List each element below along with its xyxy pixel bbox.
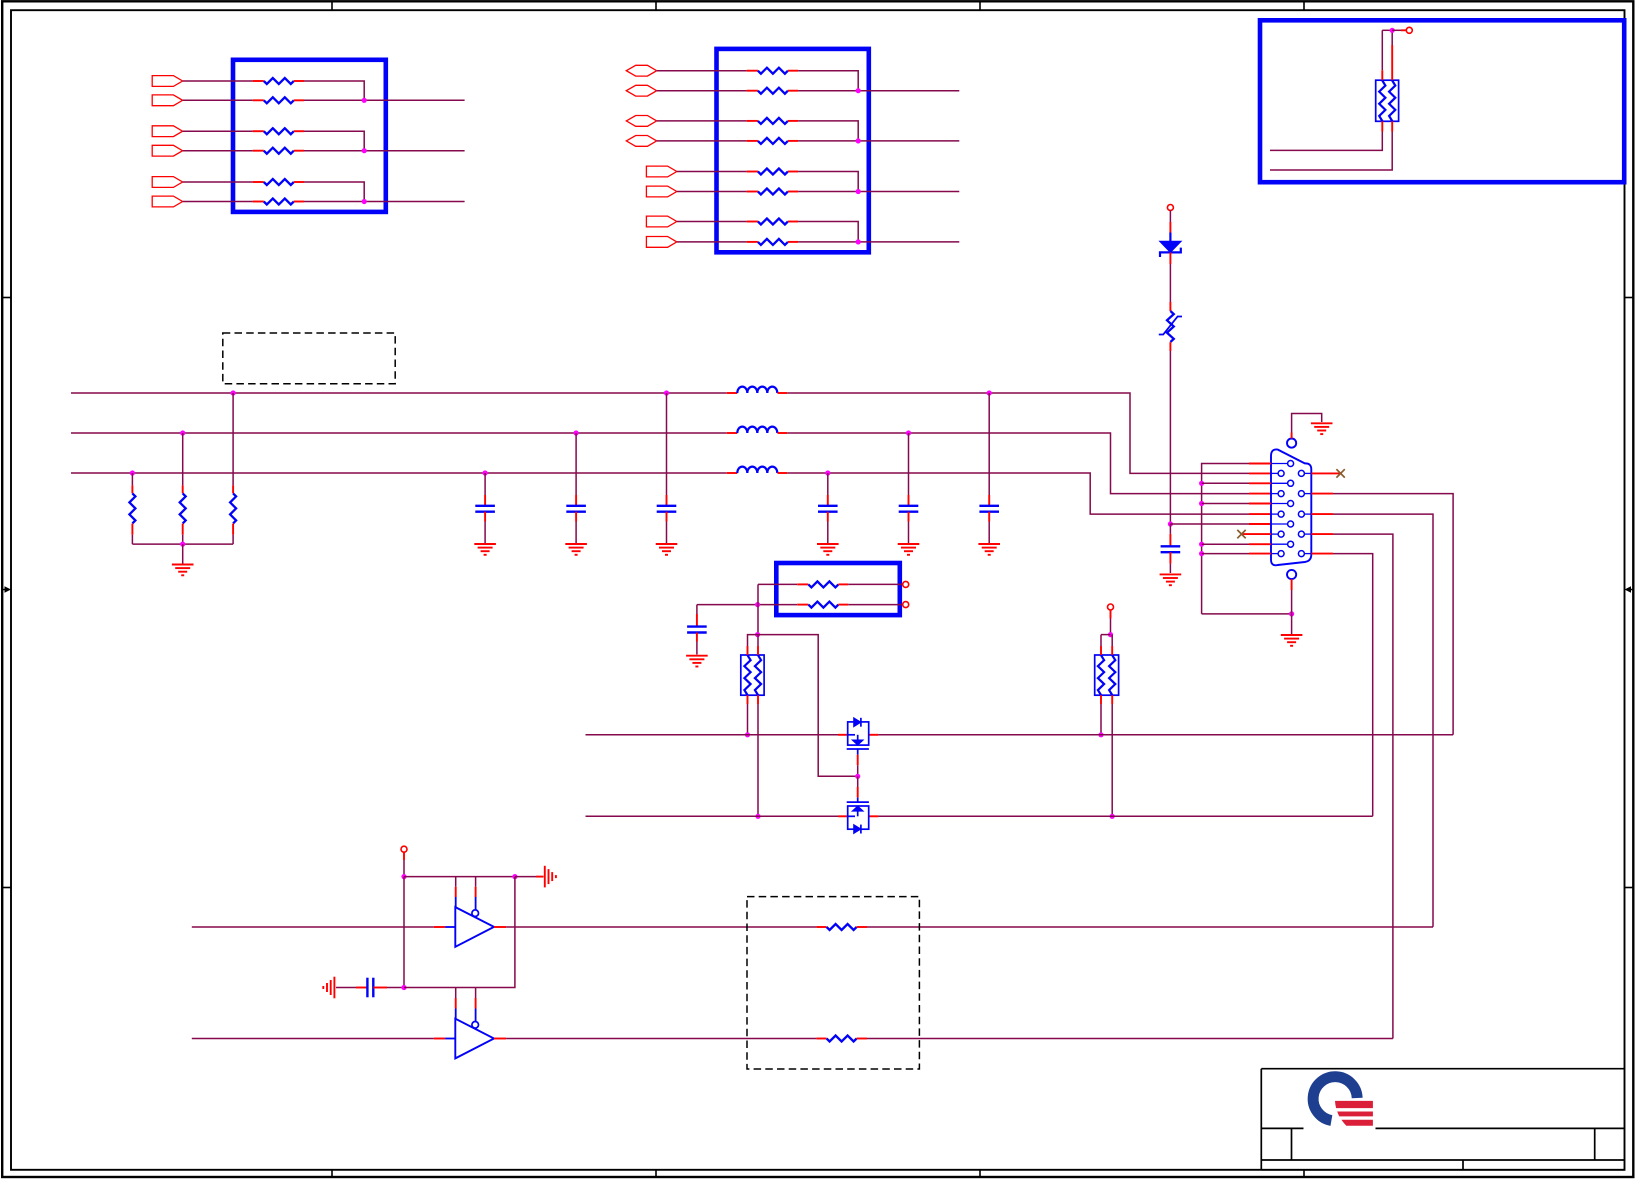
wire pin row10 to lower switch line bbox=[1311, 553, 1333, 555]
capacitor C6 bbox=[979, 505, 999, 507]
wire bus to pin row 3 bbox=[1202, 482, 1249, 484]
wire port P12 to resistor bbox=[677, 191, 747, 193]
upper switch line wire bbox=[586, 734, 839, 736]
dashed provision box (bottom) bbox=[747, 897, 919, 1069]
resistor pack RP3 element B bbox=[1389, 81, 1395, 121]
capacitor C9 bbox=[366, 978, 368, 998]
ground C9 (sideways) bbox=[333, 977, 335, 999]
driver line 2 wire right bbox=[494, 1038, 506, 1040]
resistor R14 bbox=[747, 241, 758, 243]
wire bus to C3 bbox=[666, 393, 668, 495]
wire R12 output net bbox=[798, 191, 959, 193]
resistor network box RN1 bbox=[233, 60, 386, 212]
wire D1 to RV1 bbox=[1169, 252, 1171, 264]
no-connect pin row 2 right bbox=[1311, 472, 1340, 474]
capacitor C7 bbox=[1161, 545, 1181, 547]
connector pin row1 lead bbox=[1271, 463, 1288, 465]
wire terminator common bbox=[132, 543, 233, 545]
connector pin left row8 bbox=[1278, 531, 1284, 537]
driver line 2 wire to connector bbox=[867, 1038, 1393, 1040]
wire RPL pin A to upper switch line bbox=[747, 695, 749, 704]
capacitor C9 branch bbox=[336, 987, 356, 989]
junction pair 3 bbox=[362, 199, 367, 204]
resistor pack RP3 element A bbox=[1379, 81, 1385, 121]
terminator resistor R13 bbox=[131, 485, 133, 493]
connector J1 mounting hole top bbox=[1287, 439, 1296, 448]
ground terminators bbox=[172, 564, 194, 566]
wire port P5 to resistor bbox=[183, 181, 253, 183]
connector pin row9 bbox=[1288, 541, 1294, 547]
capacitor C2 bbox=[566, 505, 586, 507]
ground C7 bbox=[1160, 573, 1182, 575]
capacitor C5 bbox=[899, 505, 919, 507]
resistor R18 bbox=[758, 604, 798, 606]
MOSFET Q1 bbox=[848, 722, 869, 745]
MOSFET Q2 bbox=[847, 801, 869, 803]
wire to terminal bbox=[1392, 29, 1401, 31]
wire pin row8 to driver line 2 bbox=[1311, 533, 1333, 535]
resistor R8 bbox=[747, 90, 758, 92]
ground C4 bbox=[817, 543, 839, 545]
wire port P10 to resistor bbox=[657, 140, 747, 142]
resistor R9 bbox=[747, 120, 758, 122]
wire RPR pin B to lower switch line bbox=[1111, 695, 1113, 704]
junction bus terminator 1 bbox=[130, 470, 135, 475]
terminal circle T5 bbox=[1108, 604, 1114, 610]
resistor R19 (dashed box) bbox=[816, 926, 826, 928]
junction RPL-B lower line bbox=[755, 814, 760, 819]
ferrite bead L2 bbox=[727, 432, 738, 434]
wire R13 output to junction bbox=[798, 222, 858, 242]
bidirectional port P8 bbox=[626, 85, 656, 96]
capacitor C4 bbox=[818, 505, 838, 507]
junction bus cap 6 bbox=[987, 390, 992, 395]
wire bus to pin row 5 bbox=[1202, 503, 1249, 505]
wire J1 pin bus vertical bbox=[1202, 464, 1249, 614]
junction lower supply node bbox=[401, 985, 406, 990]
resistor pack RPL element B bbox=[755, 655, 761, 695]
dashed provision box (top) bbox=[223, 333, 395, 384]
wire port P2 to resistor bbox=[183, 99, 253, 101]
wire buffer U1 power pin bbox=[455, 877, 457, 887]
isolation box (two series resistors) bbox=[776, 563, 900, 615]
terminal circle T2 bbox=[903, 602, 909, 608]
wire R10 output net bbox=[798, 140, 959, 142]
input port P12 bbox=[646, 186, 676, 197]
junction pair 7 bbox=[856, 189, 861, 194]
bidirectional port P10 bbox=[626, 136, 656, 147]
wire gate link horizontal bbox=[758, 635, 858, 777]
wire pin row4 to upper switch line bbox=[1311, 493, 1333, 495]
terminal circle T3 bbox=[1406, 27, 1412, 33]
junction bus cap 5 bbox=[906, 430, 911, 435]
connector pin left row2 lead bbox=[1271, 472, 1278, 474]
ground C5 bbox=[898, 543, 920, 545]
input port P13 bbox=[646, 216, 676, 227]
bus wire B right to connector row 4 bbox=[787, 433, 1249, 494]
bus wire A left bbox=[71, 392, 727, 394]
junction bus terminator 2 bbox=[180, 430, 185, 435]
wire port P6 to resistor bbox=[183, 201, 253, 203]
wire port P8 to resistor bbox=[657, 90, 747, 92]
input port P3 bbox=[152, 126, 182, 137]
junction RPR-B lower line bbox=[1110, 814, 1115, 819]
resistor R7 bbox=[747, 70, 758, 72]
ground C8 bbox=[686, 655, 708, 657]
ground J1 top bbox=[1311, 422, 1333, 424]
junction pair 6 bbox=[856, 138, 861, 143]
connector pin left row10 lead bbox=[1271, 553, 1278, 555]
junction pair 2 bbox=[362, 148, 367, 153]
wire port P11 to resistor bbox=[677, 171, 747, 173]
resistor R4 bbox=[253, 150, 264, 152]
junction pair 1 bbox=[362, 98, 367, 103]
connector pin row7 lead bbox=[1271, 523, 1288, 525]
input port P11 bbox=[646, 166, 676, 177]
connector pin right row2 lead bbox=[1304, 472, 1311, 474]
driver line 1 wire to connector bbox=[867, 926, 1433, 928]
function block box (top right) bbox=[1260, 20, 1624, 182]
resistor R6 bbox=[253, 201, 264, 203]
junction bus cap 2 bbox=[574, 430, 579, 435]
input port P5 bbox=[152, 177, 182, 188]
resistor R3 bbox=[253, 130, 264, 132]
resistor R10 bbox=[747, 140, 758, 142]
junction R18 node bbox=[755, 602, 760, 607]
wire R6 output net bbox=[304, 201, 465, 203]
junction gate node bbox=[855, 774, 860, 779]
wire Q1 gate bbox=[857, 749, 859, 755]
wire RP3 pin A out bbox=[1381, 121, 1383, 131]
junction terminator common bbox=[180, 542, 185, 547]
wire port P9 to resistor bbox=[657, 120, 747, 122]
wire R3 output to junction bbox=[304, 131, 364, 151]
resistor pack RPR outline bbox=[1095, 655, 1119, 695]
wire buffer U2 enable pin bbox=[475, 988, 477, 999]
driver line 2 wire left bbox=[192, 1038, 434, 1040]
wire bus to R15 bbox=[232, 393, 234, 485]
resistor R1 bbox=[253, 80, 264, 82]
connector pin left row8 lead bbox=[1271, 533, 1278, 535]
wire to resistor R17 bbox=[758, 583, 797, 585]
ferrite bead L1 bbox=[727, 392, 738, 394]
resistor R12 bbox=[747, 191, 758, 193]
wire R7 output to junction bbox=[798, 71, 858, 91]
title block bbox=[1261, 1068, 1624, 1070]
wire R17 to terminal bbox=[848, 583, 902, 585]
connector pin right row4 bbox=[1298, 491, 1304, 497]
wire cap branch to resistor R18 bbox=[697, 604, 758, 606]
wire supply rail horizontal bbox=[404, 876, 515, 878]
junction bus terminator 3 bbox=[231, 390, 236, 395]
wire R11 output to junction bbox=[798, 172, 858, 192]
connector pin left row4 bbox=[1278, 491, 1284, 497]
resistor pack RPR element B bbox=[1109, 655, 1115, 695]
junction pair 5 bbox=[856, 88, 861, 93]
ground buffer rail bbox=[544, 866, 546, 888]
junction enable rail bbox=[512, 874, 517, 879]
driver line 1 wire right bbox=[494, 926, 506, 928]
input port P2 bbox=[152, 95, 182, 106]
terminal circle T1 bbox=[903, 581, 909, 587]
capacitor C8 bbox=[687, 625, 707, 627]
junction pin bus row 3 bbox=[1199, 481, 1204, 486]
wire R18 to terminal bbox=[848, 604, 902, 606]
wire bus to pin row 10 bbox=[1202, 553, 1249, 555]
resistor R2 bbox=[253, 99, 264, 101]
wire junction to capacitor C7 bbox=[1169, 524, 1171, 534]
wire T5 to pack R bbox=[1110, 610, 1112, 619]
input port P4 bbox=[152, 145, 182, 156]
connector pin left row6 bbox=[1278, 511, 1284, 517]
wire bus to C2 bbox=[575, 433, 577, 495]
wire J1 shield top to ground bbox=[1291, 433, 1293, 439]
junction pack R top bbox=[1108, 632, 1113, 637]
ground C6 bbox=[978, 543, 1000, 545]
wire port P1 to resistor bbox=[183, 80, 253, 82]
wire junction to connector pin 7 bbox=[1170, 523, 1249, 525]
junction pin bus row 5 bbox=[1199, 501, 1204, 506]
connector pin row5 bbox=[1288, 501, 1294, 507]
connector pin right row10 bbox=[1298, 551, 1304, 557]
wire port P4 to resistor bbox=[183, 150, 253, 152]
wire supply drop bbox=[403, 877, 405, 988]
connector pin right row6 bbox=[1298, 511, 1304, 517]
wire pin bus to shield bottom bbox=[1202, 613, 1292, 615]
junction RP3 top bbox=[1390, 28, 1395, 33]
input port P14 bbox=[646, 237, 676, 248]
wire buffer U1 enable pin bbox=[475, 877, 477, 887]
connector pin row9 lead bbox=[1271, 543, 1288, 545]
resistor R11 bbox=[747, 171, 758, 173]
junction bus cap 3 bbox=[664, 390, 669, 395]
connector pin right row2 bbox=[1298, 470, 1304, 476]
wire R5 output to junction bbox=[304, 182, 364, 202]
wire to sideways ground bbox=[515, 876, 536, 878]
junction varistor net bbox=[1168, 521, 1173, 526]
ground J1 bottom bbox=[1281, 634, 1303, 636]
junction pack L top bbox=[755, 632, 760, 637]
wire RPL pin B to lower switch line bbox=[757, 695, 759, 704]
bus wire C left bbox=[71, 472, 727, 474]
connector pin right row10 lead bbox=[1304, 553, 1311, 555]
capacitor C3 bbox=[657, 505, 677, 507]
bus wire C right to connector row 6 bbox=[787, 473, 1249, 514]
junction pair 8 bbox=[856, 239, 861, 244]
connector pin row5 lead bbox=[1271, 503, 1288, 505]
connector pin left row6 lead bbox=[1271, 513, 1278, 515]
connector pin row3 bbox=[1288, 480, 1294, 486]
resistor R20 (dashed box) bbox=[816, 1038, 826, 1040]
resistor R17 bbox=[797, 583, 808, 585]
wire bus to pin row 9 bbox=[1202, 543, 1249, 545]
wire bus to C1 bbox=[484, 473, 486, 495]
bidirectional port P9 bbox=[626, 116, 656, 127]
resistor pack RPL element A bbox=[744, 655, 750, 695]
wire lower rail bbox=[404, 987, 476, 989]
wire pin row6 to driver line 1 bbox=[1311, 513, 1333, 515]
wire RPL top leads bbox=[748, 635, 758, 646]
wire R9 output to junction bbox=[798, 121, 858, 141]
connector pin right row8 bbox=[1298, 531, 1304, 537]
buffer U2 bbox=[455, 1019, 494, 1059]
bidirectional port P7 bbox=[626, 65, 656, 76]
terminal circle T4 bbox=[1167, 205, 1173, 211]
wire R14 output net bbox=[798, 241, 959, 243]
terminator resistor R15 bbox=[232, 485, 234, 493]
connector pin left row10 bbox=[1278, 551, 1284, 557]
input port P6 bbox=[152, 196, 182, 207]
resistor network box RN2 bbox=[717, 49, 869, 252]
wire port P14 to resistor bbox=[677, 241, 747, 243]
wire supply bbox=[403, 852, 405, 860]
wire bus to C6 bbox=[988, 393, 990, 495]
wire to ground bbox=[182, 544, 184, 563]
bus wire B left bbox=[71, 432, 727, 434]
wire R4 output net bbox=[304, 150, 465, 152]
wire R2 output net bbox=[304, 99, 465, 101]
terminator resistor R14 bbox=[182, 485, 184, 493]
wire RPR top leads bbox=[1101, 634, 1111, 636]
wire RP3 pin B out bbox=[1391, 121, 1393, 131]
connector pin row1 bbox=[1288, 461, 1294, 467]
wire RPR pin A to upper switch line bbox=[1100, 695, 1102, 704]
resistor pack RP3 outline bbox=[1376, 80, 1399, 121]
connector J1 mounting hole bottom bbox=[1287, 570, 1296, 579]
resistor R13 bbox=[747, 221, 758, 223]
lower switch line wire bbox=[586, 815, 839, 817]
junction bus cap 4 bbox=[825, 470, 830, 475]
junction RPL-A upper line bbox=[745, 732, 750, 737]
wire R8 output net bbox=[798, 90, 959, 92]
ground C1 bbox=[474, 543, 496, 545]
wire gate node to Q2 bbox=[857, 776, 859, 787]
buffer U1 bbox=[455, 907, 494, 947]
junction supply node bbox=[401, 874, 406, 879]
wire bus to C5 bbox=[908, 433, 910, 495]
connector pin right row4 lead bbox=[1304, 493, 1311, 495]
resistor pack RPR element A bbox=[1098, 655, 1104, 695]
wire buffer U2 power pin bbox=[455, 988, 457, 999]
input port P1 bbox=[152, 76, 182, 87]
connector pin right row6 lead bbox=[1304, 513, 1311, 515]
varistor RV1 bbox=[1167, 311, 1174, 342]
wire port P13 to resistor bbox=[677, 221, 747, 223]
junction RPR-A upper line bbox=[1098, 732, 1103, 737]
wire J1 shield bottom bbox=[1291, 579, 1293, 590]
ferrite bead L3 bbox=[727, 472, 738, 474]
wire port P7 to resistor bbox=[657, 70, 747, 72]
connector pin row7 bbox=[1288, 521, 1294, 527]
wire vertical R17 node chain bbox=[757, 584, 759, 634]
connector pin row3 lead bbox=[1271, 482, 1288, 484]
capacitor C8 branch bbox=[696, 605, 698, 614]
connector pin right row8 lead bbox=[1304, 533, 1311, 535]
junction bus cap 1 bbox=[483, 470, 488, 475]
wire T4 to D1 bbox=[1169, 211, 1171, 223]
wire bus to R14 bbox=[182, 433, 184, 485]
wire R1 output to junction bbox=[304, 81, 364, 100]
wire RV1 down to DB15 pin row 7 bbox=[1169, 342, 1171, 351]
connector J1 body bbox=[1271, 449, 1311, 565]
terminal circle T6 (supply) bbox=[401, 846, 407, 852]
no-connect pin row 8 bbox=[1242, 533, 1272, 535]
connector pin left row4 lead bbox=[1271, 493, 1278, 495]
resistor R5 bbox=[253, 181, 264, 183]
ground C2 bbox=[565, 543, 587, 545]
wire port P3 to resistor bbox=[183, 130, 253, 132]
bus wire A right to connector row 2 bbox=[787, 393, 1249, 473]
resistor pack RPL outline bbox=[741, 655, 764, 695]
TVS diode D1 bbox=[1169, 233, 1171, 242]
wire enable drop bbox=[476, 877, 515, 988]
junction pin bus row 9 bbox=[1199, 542, 1204, 547]
company logo bbox=[1313, 1077, 1357, 1121]
junction shield bottom bbox=[1289, 611, 1294, 616]
driver line 1 wire left bbox=[192, 926, 434, 928]
junction pin bus row 10 bbox=[1199, 551, 1204, 556]
capacitor C1 bbox=[475, 505, 495, 507]
wire bus to C4 bbox=[827, 473, 829, 495]
ground C3 bbox=[656, 543, 678, 545]
wire RP3 top tie bbox=[1382, 29, 1392, 31]
connector pin left row2 bbox=[1278, 470, 1284, 476]
wire bus to R13 bbox=[131, 473, 133, 485]
